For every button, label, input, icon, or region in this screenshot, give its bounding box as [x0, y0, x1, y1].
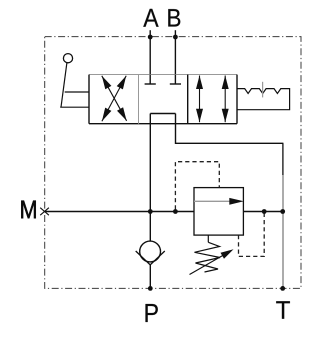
node T (boundary junction) — [280, 286, 285, 291]
relief adjustment arrow shaft — [190, 256, 223, 275]
port label B — [168, 9, 180, 26]
node B (boundary junction) — [173, 35, 178, 40]
arrowhead crossed line 1 top — [102, 76, 112, 90]
directional valve body bottom edge — [89, 123, 237, 125]
wire M line — [45, 211, 194, 213]
arrowhead crossed line 2 top — [117, 76, 127, 90]
wire relief outlet — [243, 211, 282, 213]
valve position divider 1 — [138, 75, 140, 124]
directional valve body right edge — [236, 75, 238, 124]
relief valve body — [194, 188, 243, 236]
wire port B to valve — [174, 30, 176, 74]
wire M junction to check valve — [149, 212, 151, 242]
blocked port A bar — [145, 83, 156, 85]
port label P — [145, 304, 157, 322]
wire port A to valve — [149, 30, 151, 74]
valve position divider 2 — [187, 75, 189, 124]
node vent junction — [262, 209, 267, 214]
blocked port B bar — [170, 83, 181, 85]
arrowhead parallel line 2 up — [222, 76, 229, 90]
relief valve pilot line (dashed) — [175, 162, 219, 210]
lever actuator box bottom — [60, 106, 89, 108]
parallel flow line 2 — [224, 76, 226, 123]
arrowhead crossed line 1 bottom — [117, 107, 127, 121]
relief valve spring — [195, 242, 221, 272]
directional valve body left edge — [88, 75, 90, 124]
node M-P junction — [148, 209, 153, 214]
crossed-position flow line 1 — [102, 76, 127, 121]
relief valve vent line (dashed) — [239, 214, 265, 257]
crossed-position flow line 2 — [102, 76, 126, 121]
blocked port A stub — [149, 75, 151, 84]
check valve seat — [136, 251, 165, 265]
lever actuator box top — [65, 91, 89, 93]
spring center tick — [262, 82, 264, 98]
wire T line lower — [282, 175, 284, 288]
arrowhead parallel line 1 up — [196, 76, 203, 90]
relief valve flow line — [194, 200, 230, 202]
wire check valve to port P — [149, 265, 151, 289]
bypass channel notch top — [150, 113, 175, 115]
plugged port M symbol — [40, 208, 49, 216]
node outlet-T junction — [280, 209, 285, 214]
wire bypass P-T (notch to T line) — [176, 114, 284, 144]
relief valve spring stub — [207, 235, 209, 242]
relief valve flow arrowhead — [229, 198, 244, 205]
arrowhead crossed line 2 bottom — [102, 108, 112, 122]
subplate boundary (dash-dot enclosure) — [45, 37, 301, 289]
arrowhead parallel line 2 down — [222, 109, 229, 123]
port label A — [143, 9, 158, 27]
blocked port B stub — [174, 75, 176, 84]
port label M — [21, 201, 36, 218]
parallel flow line 1 — [199, 76, 201, 123]
node pilot junction — [173, 209, 178, 214]
wire P line (valve to M junction) — [149, 114, 151, 212]
valve return spring — [237, 89, 290, 110]
node A (boundary junction) — [148, 35, 153, 40]
wire T line upper — [282, 143, 284, 175]
port label T — [276, 301, 290, 318]
directional valve body top edge — [89, 74, 237, 76]
lever knob circle — [63, 54, 72, 63]
lever arm — [61, 63, 67, 107]
arrowhead parallel line 1 down — [196, 109, 203, 123]
relief adjustment arrowhead — [221, 249, 234, 258]
check valve ball — [140, 241, 161, 262]
node P (boundary junction) — [148, 286, 153, 291]
